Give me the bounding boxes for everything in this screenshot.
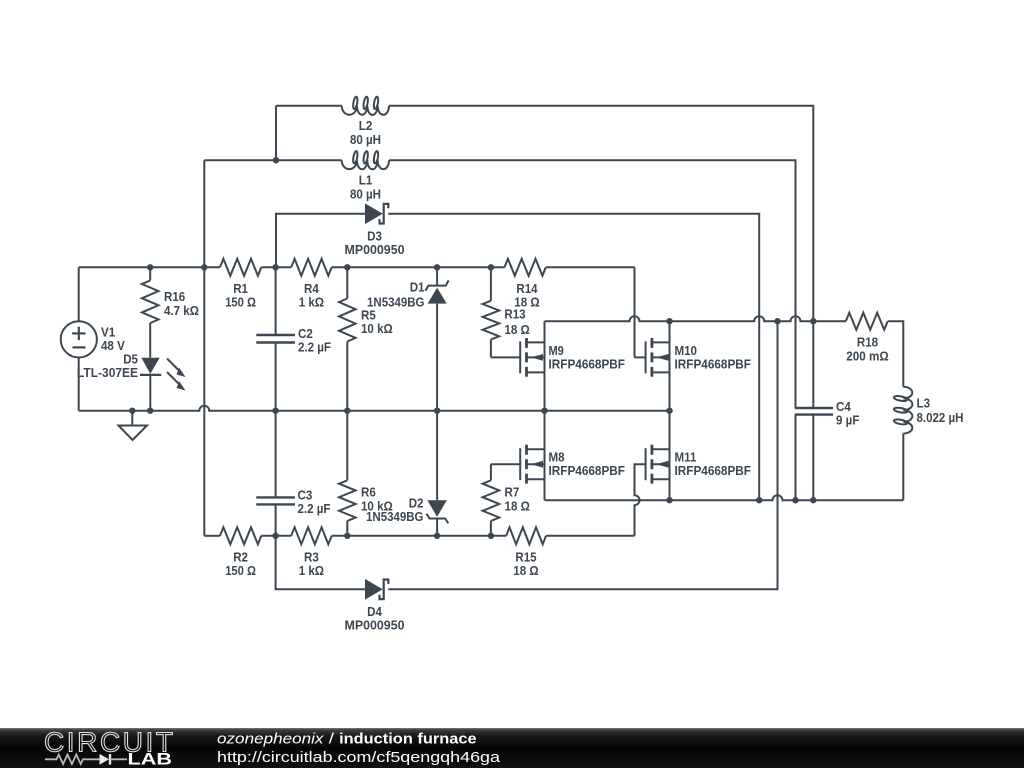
wire R14 output down to M10 gate (hops gate-bus) — [635, 267, 646, 357]
label D1 value — [367, 280, 425, 310]
label R13 value — [504, 307, 529, 337]
resistor R14 — [505, 259, 546, 276]
svg-text:18 Ω: 18 Ω — [513, 563, 538, 578]
wire gate-bus row (M9/M10 drains to R18), hops three verticals — [545, 316, 846, 321]
wire mid rail (hops L1 vertical) — [79, 406, 670, 411]
wire M9 drain/source riser — [544, 321, 546, 411]
wire M11 drain/source riser — [669, 411, 671, 501]
label R4 value — [299, 281, 324, 310]
wire D4 row left corner from bottom rail — [276, 536, 366, 590]
svg-text:R7: R7 — [505, 484, 520, 499]
svg-text:10 kΩ: 10 kΩ — [361, 321, 393, 336]
resistor R15 — [506, 527, 546, 544]
label V1 value — [101, 325, 125, 354]
voltage source V1 — [61, 267, 97, 410]
ground symbol — [119, 411, 148, 440]
svg-text:L1: L1 — [359, 172, 373, 187]
footer url text — [217, 750, 501, 766]
resistor R7 — [483, 464, 521, 536]
footer bar — [0, 728, 1024, 768]
svg-text:2.2 µF: 2.2 µF — [298, 501, 331, 516]
wire M10 drain/source riser — [669, 321, 671, 411]
capacitor C3 — [256, 411, 295, 536]
svg-text:18 Ω: 18 Ω — [504, 322, 529, 337]
label R5 value — [361, 308, 393, 337]
junction dots on top rail — [147, 264, 494, 270]
MOSFET M11 — [646, 445, 670, 484]
svg-text:R6: R6 — [361, 484, 376, 499]
svg-text:150 Ω: 150 Ω — [225, 563, 256, 578]
wire L3 bottom to bottom bridge wire — [902, 434, 904, 501]
resistor R13 — [483, 267, 521, 357]
label M8 value — [549, 450, 626, 479]
wire D3 row right to corner and down to bottom bridge wire — [388, 214, 759, 501]
capacitor C2 — [256, 267, 295, 410]
label L3 value — [917, 396, 964, 426]
wire L1 row right to corner and down to C4 upper plate — [389, 160, 796, 408]
wire M8 drain/source riser — [544, 411, 546, 501]
wire M11 gate from R15 (hops bottom bridge wire) — [635, 464, 646, 536]
svg-text:80 µH: 80 µH — [350, 132, 381, 147]
wire L1 vertical below C4 to bottom bridge wire — [795, 415, 797, 501]
svg-text:L3: L3 — [917, 396, 931, 411]
MOSFET M9 — [520, 338, 544, 377]
wire R18 to corner down to L3 — [888, 321, 904, 387]
diode D3 (schottky) — [366, 204, 389, 224]
resistor R18 — [846, 313, 888, 330]
svg-text:8.022 µH: 8.022 µH — [917, 410, 964, 425]
svg-text:LTL-307EE: LTL-307EE — [77, 365, 138, 380]
resistor R6 — [339, 411, 356, 536]
label D2 value — [366, 496, 424, 524]
MOSFET M8 — [520, 445, 544, 484]
inductor L2 — [342, 96, 389, 114]
label D4 value — [345, 604, 405, 633]
svg-text:D1: D1 — [410, 280, 425, 295]
svg-text:R16: R16 — [164, 289, 185, 304]
label C3 value — [298, 488, 331, 517]
inductor L3 — [894, 387, 913, 434]
zener diode D2 — [427, 411, 449, 536]
label R14 value — [514, 281, 539, 310]
svg-text:200 mΩ: 200 mΩ — [846, 349, 889, 364]
resistor R2 — [220, 527, 261, 544]
MOSFET M10 — [646, 338, 670, 377]
CircuitLab logo CIRCUIT — [44, 727, 173, 758]
svg-text:150 Ω: 150 Ω — [225, 295, 256, 310]
svg-text:MP000950: MP000950 — [345, 618, 405, 633]
wire vertical from L2 row down to L1 row — [275, 106, 277, 160]
svg-text:9 µF: 9 µF — [836, 413, 859, 428]
label R18 value — [846, 335, 889, 364]
resistor R5 — [339, 267, 356, 410]
wire bottom bridge wire (hops D4 riser) — [545, 495, 904, 500]
svg-text:R13: R13 — [504, 307, 525, 322]
diode D4 (schottky) — [366, 580, 389, 600]
footer title text — [217, 732, 477, 748]
junction dots on bottom rail — [272, 533, 494, 539]
wire vertical L1 left end down to bottom rail (through top rail, hops mid rail) — [203, 160, 205, 536]
wire L2 row left lead — [276, 105, 342, 107]
svg-text:LAB: LAB — [128, 750, 173, 768]
capacitor C4 — [795, 321, 833, 500]
wire bottom rail — [204, 535, 634, 537]
wire L2 row right to corner and down to gate-bus node — [389, 106, 813, 321]
junction dots on bottom bridge wire — [666, 497, 816, 503]
junction dots on mid rail — [129, 408, 673, 414]
svg-text:L2: L2 — [359, 118, 373, 133]
resistor R1 — [220, 259, 261, 276]
label M9 value — [549, 343, 626, 372]
label M10 value — [675, 343, 752, 372]
label R15 value — [513, 549, 538, 578]
svg-text:IRFP4668PBF: IRFP4668PBF — [549, 463, 626, 478]
svg-text:IRFP4668PBF: IRFP4668PBF — [675, 463, 752, 478]
label R1 value — [225, 281, 256, 310]
svg-text:IRFP4668PBF: IRFP4668PBF — [675, 357, 752, 372]
CircuitLab logo LAB — [128, 750, 173, 768]
svg-text:48 V: 48 V — [101, 338, 125, 353]
resistor R16 — [142, 267, 159, 357]
zener diode D1 — [425, 267, 448, 410]
svg-text:1N5349BG: 1N5349BG — [366, 509, 424, 524]
resistor R4 — [291, 259, 332, 276]
label D3 — [345, 229, 405, 258]
CircuitLab logo resistor-diode symbol — [45, 754, 127, 765]
label C4 value — [836, 399, 859, 428]
inductor L1 — [342, 151, 389, 169]
label R7 value — [505, 484, 530, 513]
label C2 value — [298, 326, 331, 354]
resistor R3 — [291, 527, 332, 544]
label R16 value — [164, 289, 199, 318]
label M11 value — [675, 450, 752, 479]
svg-text:http://circuitlab.com/cf5qengq: http://circuitlab.com/cf5qengqh46ga — [217, 750, 501, 766]
svg-text:IRFP4668PBF: IRFP4668PBF — [549, 357, 626, 372]
label D5 value — [77, 351, 138, 380]
svg-text:80 µH: 80 µH — [350, 186, 381, 201]
svg-text:2.2 µF: 2.2 µF — [298, 339, 331, 354]
LED D5 — [140, 358, 186, 411]
svg-text:4.7 kΩ: 4.7 kΩ — [164, 303, 199, 318]
wire D4 row right to corner up to gate-bus dot — [388, 321, 777, 589]
svg-text:R18: R18 — [857, 335, 878, 350]
wire top rail — [79, 266, 635, 268]
svg-text:1N5349BG: 1N5349BG — [367, 295, 425, 310]
svg-text:1 kΩ: 1 kΩ — [299, 295, 324, 310]
svg-text:ozonepheonix / induction furna: ozonepheonix / induction furnace — [217, 732, 477, 748]
wire D3 row left lead and corner down to top rail — [276, 214, 366, 268]
label R3 value — [299, 549, 324, 578]
wire L1 row left lead — [204, 159, 341, 161]
junction dot L1/L2 — [273, 157, 279, 163]
label R6 value — [361, 484, 393, 513]
label R2 value — [225, 549, 256, 578]
svg-text:1 kΩ: 1 kΩ — [299, 563, 324, 578]
svg-text:18 Ω: 18 Ω — [505, 498, 530, 513]
label L2 value — [350, 118, 381, 147]
junction dots on gate-bus row — [666, 318, 816, 324]
svg-text:MP000950: MP000950 — [345, 242, 405, 257]
label L1 value — [350, 172, 381, 201]
